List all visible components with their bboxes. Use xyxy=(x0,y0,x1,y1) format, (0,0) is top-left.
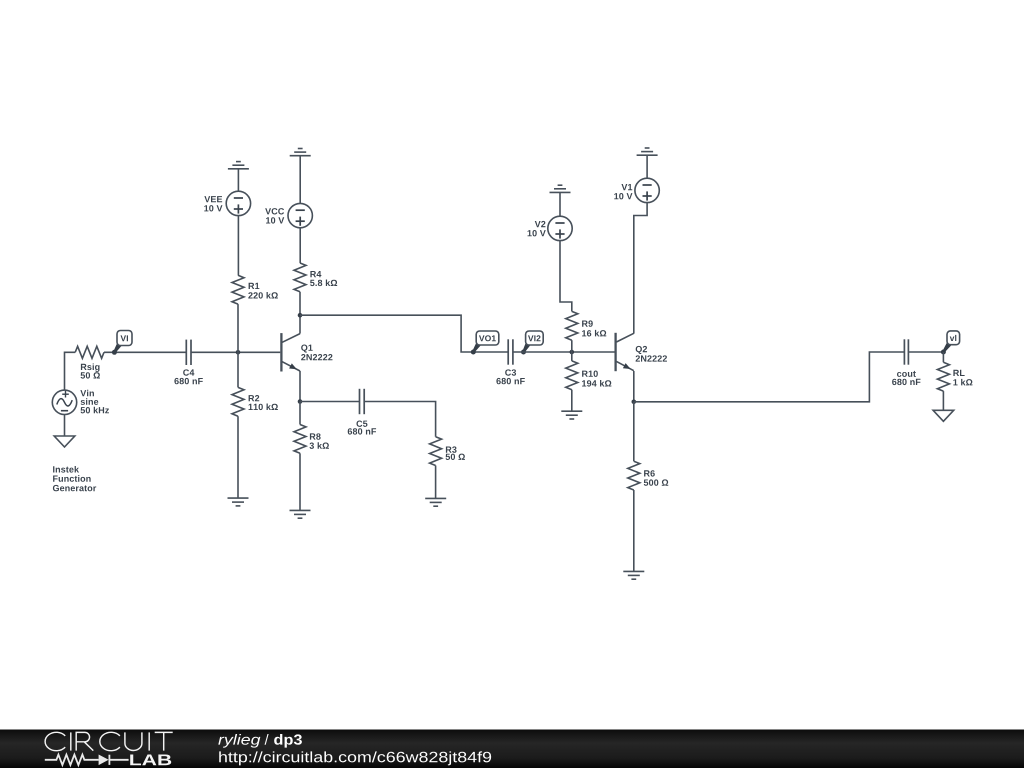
wire R1 to R2 xyxy=(237,304,239,387)
wire C3 to Q2 base xyxy=(513,351,615,353)
wire R10 to ground xyxy=(571,390,573,412)
label R3 xyxy=(446,446,457,452)
wire node to RL xyxy=(942,352,944,362)
capacitor C3 xyxy=(496,339,524,384)
wire R9 to node xyxy=(571,340,573,352)
wire emitter node to R8 xyxy=(299,402,301,425)
label Rsig xyxy=(81,363,100,371)
capacitor C4 xyxy=(174,340,202,385)
ground (VCC) xyxy=(290,149,311,156)
footer url xyxy=(219,751,491,765)
wire Vin to ground xyxy=(64,415,66,437)
wire ground to VCC xyxy=(299,156,301,204)
label RL xyxy=(953,370,964,376)
resistor Rsig zigzag xyxy=(75,346,104,358)
node flag VO1 xyxy=(471,331,499,355)
wire ground to V2 xyxy=(559,192,561,216)
wire cout to RL xyxy=(908,351,943,353)
voltage source VEE xyxy=(204,191,250,215)
resistor R1 zigzag xyxy=(232,275,244,304)
junction R9/R10 node xyxy=(570,350,575,355)
wire C4 to Q1 base xyxy=(191,351,280,353)
wire collector node to C3 xyxy=(300,315,508,352)
label R1 xyxy=(249,283,260,289)
capacitor cout xyxy=(892,339,920,385)
ground (V1) xyxy=(637,148,658,155)
transistor Q2 xyxy=(616,333,667,371)
node flag VI xyxy=(112,331,132,355)
junction Q2 emitter node xyxy=(632,400,637,405)
resistor R3 zigzag xyxy=(430,437,442,466)
annotation: Instek Function Generator xyxy=(53,466,79,473)
ground (VEE) xyxy=(228,162,249,169)
resistor R10 zigzag xyxy=(566,361,578,390)
wire Q1 collector xyxy=(299,315,301,333)
footer bar xyxy=(0,730,1024,768)
CircuitLab logo: LAB text xyxy=(130,754,171,765)
wire V1 to Q2 collector xyxy=(634,203,647,334)
wire Q1 emitter xyxy=(299,371,301,402)
footer title: rylieg / dp3 xyxy=(218,734,260,748)
resistor R2 zigzag xyxy=(232,387,244,416)
CircuitLab logo: resistor-diode glyph xyxy=(45,755,129,765)
ground (R2) xyxy=(228,498,249,506)
wire R2 to ground xyxy=(237,416,239,498)
junction Q1 emitter node xyxy=(298,399,303,404)
CircuitLab logo: CIRCUIT wordmark xyxy=(45,732,173,750)
wire emitter to C5 xyxy=(300,401,360,403)
ground (R8) xyxy=(290,510,311,518)
wire C5 to R3 xyxy=(364,402,435,437)
label R4 xyxy=(310,271,321,277)
resistor R9 zigzag xyxy=(566,311,578,340)
wire VCC to R4 xyxy=(299,228,301,263)
wire Q2 emitter xyxy=(633,371,635,402)
ground (V2) xyxy=(550,185,571,192)
wire ground to VEE xyxy=(237,169,239,191)
wire VEE to R1 xyxy=(237,216,239,276)
ground (R10) xyxy=(561,411,582,419)
wire R6 to ground xyxy=(633,490,635,571)
wire R8 to ground xyxy=(299,453,301,510)
wire ground to V1 xyxy=(646,155,648,178)
node flag vl xyxy=(941,331,960,355)
ground (Vin) xyxy=(54,436,75,447)
label R8 xyxy=(310,433,321,439)
wire V2 to R9 xyxy=(560,241,572,312)
ground (R3) xyxy=(425,498,446,506)
label R9 xyxy=(582,320,593,326)
voltage source Vin (sine) xyxy=(52,390,109,415)
wire RL to ground xyxy=(942,391,944,410)
resistor R8 zigzag xyxy=(294,425,306,454)
junction Q1 collector node xyxy=(298,313,303,318)
resistor RL zigzag xyxy=(937,362,949,391)
resistor R4 zigzag xyxy=(294,263,306,292)
voltage source VCC xyxy=(265,203,312,227)
label R10 xyxy=(582,371,598,377)
wire Vin to Rsig xyxy=(65,352,76,390)
capacitor C5 xyxy=(348,389,376,435)
node flag VI2 xyxy=(521,331,543,355)
wire Q2 emitter to cout xyxy=(634,352,905,402)
wire node to R10 xyxy=(571,352,573,361)
wire emitter node to R6 xyxy=(633,402,635,461)
label R6 xyxy=(644,470,655,476)
voltage source V1 xyxy=(614,178,659,202)
resistor R6 zigzag xyxy=(628,461,640,490)
transistor Q1 xyxy=(281,333,332,371)
ground (R6) xyxy=(623,571,644,579)
ground (RL) xyxy=(933,410,954,421)
label R2 xyxy=(249,395,260,401)
voltage source V2 xyxy=(528,216,573,240)
wire R4 to collector node xyxy=(299,292,301,315)
wire Rsig to C4 xyxy=(104,351,186,353)
junction R1/R2/C4 xyxy=(236,350,241,355)
wire R3 to ground xyxy=(435,466,437,499)
